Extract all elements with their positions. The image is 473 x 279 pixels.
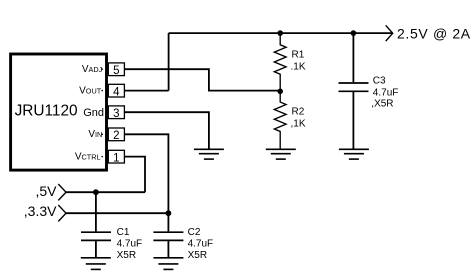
svg-text:4: 4 xyxy=(113,86,120,98)
ground (C3) xyxy=(339,149,369,159)
svg-text:C3: C3 xyxy=(373,76,386,87)
svg-text:VOUT: VOUT xyxy=(79,85,102,96)
wire pin 4 VOUT xyxy=(125,90,169,92)
ground (R2) xyxy=(266,149,296,159)
pin label VADJ xyxy=(82,64,103,75)
resistor R2 xyxy=(274,91,304,148)
ground (C1) xyxy=(81,258,111,270)
value 4.7uF (C3) xyxy=(373,88,399,99)
pin label VOUT xyxy=(79,85,103,96)
wire output rail (top) xyxy=(169,32,392,34)
pin label VIN xyxy=(88,129,103,140)
value ,X5R (C3) xyxy=(371,99,393,110)
svg-text:3: 3 xyxy=(113,108,119,120)
svg-text:2: 2 xyxy=(113,130,119,142)
pin 5 box xyxy=(108,63,124,77)
IC JRU1120 xyxy=(11,54,107,170)
wire VOUT riser xyxy=(168,33,170,91)
junction node 5V/C1 xyxy=(93,189,99,195)
svg-text:5: 5 xyxy=(113,65,119,77)
label ,5V xyxy=(35,183,57,199)
port 3.3V arrow xyxy=(58,205,66,221)
svg-text:VCTRL: VCTRL xyxy=(75,151,101,162)
value ,1K (R2) xyxy=(291,119,306,130)
value X5R (C1) xyxy=(117,250,136,261)
resistor R1 xyxy=(274,33,304,91)
wire pin 3 Gnd xyxy=(125,112,209,148)
wire pin 2 VIN riser xyxy=(125,134,169,213)
svg-text:.1K: .1K xyxy=(291,62,306,73)
svg-text:,X5R: ,X5R xyxy=(371,99,393,110)
wire pin 5 VADJ to divider xyxy=(125,69,281,90)
junction node output/R1 xyxy=(277,30,283,36)
svg-text:R2: R2 xyxy=(292,107,305,118)
svg-text:,5V: ,5V xyxy=(35,183,57,199)
svg-text:X5R: X5R xyxy=(188,250,207,261)
ground (C2) xyxy=(153,258,183,270)
svg-text:1: 1 xyxy=(113,152,119,164)
port 2.5V @ 2A arrow xyxy=(386,25,393,41)
svg-text:VIN: VIN xyxy=(88,129,102,140)
svg-text:2.5V @ 2A: 2.5V @ 2A xyxy=(397,26,471,42)
capacitor C2 xyxy=(153,213,200,257)
value 4.7uF (C2) xyxy=(188,238,214,249)
pin label Gnd xyxy=(83,107,104,119)
svg-text:JRU1120: JRU1120 xyxy=(15,103,78,120)
svg-text:4.7uF: 4.7uF xyxy=(188,238,214,249)
wire 5V rail xyxy=(66,191,145,193)
junction node output/C3 xyxy=(351,30,357,36)
svg-text:Gnd: Gnd xyxy=(83,107,104,119)
svg-text:4.7uF: 4.7uF xyxy=(117,238,143,249)
svg-text:4.7uF: 4.7uF xyxy=(373,88,399,99)
ground (pin 3) xyxy=(194,149,224,159)
wire pin 1 VCTRL riser xyxy=(125,157,146,193)
value X5R (C2) xyxy=(188,250,207,261)
svg-text:C1: C1 xyxy=(117,227,130,238)
pin 4 box xyxy=(108,84,124,98)
pin 1 box xyxy=(108,150,124,164)
svg-text:,3.3V: ,3.3V xyxy=(24,203,57,219)
label ,3.3V xyxy=(24,203,57,219)
junction node VADJ/divider xyxy=(277,89,283,95)
value 4.7uF (C1) xyxy=(117,238,143,249)
junction node 3.3V/C2/VIN xyxy=(166,210,172,216)
capacitor C1 xyxy=(81,192,130,257)
svg-text:C2: C2 xyxy=(188,227,201,238)
value .1K (R1) xyxy=(291,62,306,73)
svg-text:X5R: X5R xyxy=(117,250,136,261)
svg-text:VADJ: VADJ xyxy=(82,64,103,75)
svg-text:R1: R1 xyxy=(292,50,305,61)
label 2.5V @ 2A xyxy=(397,26,471,42)
port 5V arrow xyxy=(58,184,66,200)
pin label VCTRL xyxy=(75,151,103,162)
capacitor C3 xyxy=(339,33,387,149)
svg-text:,1K: ,1K xyxy=(291,119,306,130)
wire 3.3V rail xyxy=(66,212,168,214)
pin 2 box xyxy=(108,128,124,142)
pin 3 box xyxy=(108,106,124,120)
